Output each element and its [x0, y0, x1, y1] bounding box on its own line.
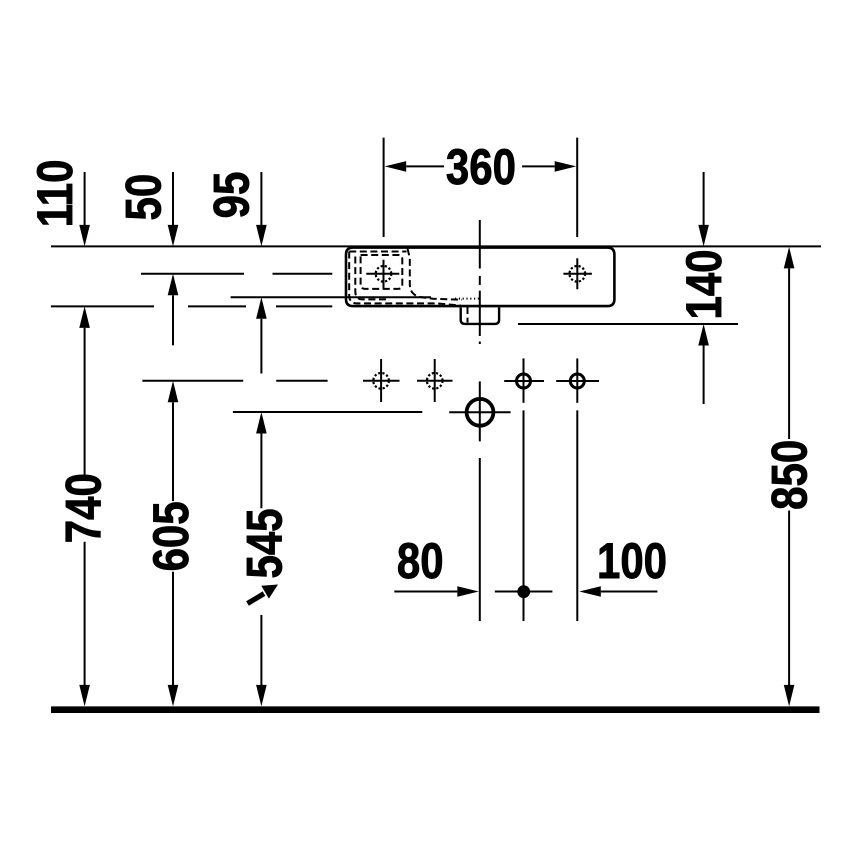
- drain circle cross horizontal: [449, 411, 510, 413]
- dim 95 shaft upper: [260, 172, 262, 226]
- extension line 545 level (drain center): [233, 411, 422, 413]
- hidden bowl left wall: [349, 252, 461, 306]
- dim 545 shaft lower: [260, 615, 262, 686]
- extension line 755 level (95 below top): [231, 296, 431, 298]
- dim 850 shaft upper: [788, 268, 790, 439]
- svg-text:100: 100: [597, 533, 667, 589]
- drain hole circle: [467, 399, 494, 426]
- dim 110 shaft upper: [84, 172, 86, 226]
- svg-text:740: 740: [55, 473, 111, 543]
- basin body outline: [346, 248, 614, 307]
- hidden bowl outline top: [349, 251, 406, 253]
- dim 605 shaft upper: [172, 402, 174, 501]
- arrow down 740 at floor: [79, 685, 90, 707]
- arrow right 360: [555, 161, 577, 172]
- dim 95 shaft lower: [260, 319, 262, 374]
- arrow up 740/110 at basin bottom: [79, 306, 90, 328]
- hidden bowl right wall: [408, 249, 463, 300]
- arrow left 100: [579, 586, 601, 597]
- svg-text:850: 850: [761, 440, 817, 510]
- svg-text:140: 140: [676, 249, 732, 319]
- dim 740 shaft lower: [84, 542, 86, 686]
- hole A cross lines: [363, 380, 400, 382]
- dimension point dot 80/100: [517, 585, 530, 598]
- hidden drain pipe line in siphon: [467, 307, 469, 323]
- arrow up 140 at siphon bottom: [698, 324, 709, 346]
- basin circle 2 cross lines: [563, 273, 592, 275]
- dim 140 shaft upper: [703, 172, 705, 226]
- arrow up 50 at 800 level: [168, 274, 179, 296]
- wall hole A (dashed): [373, 373, 389, 389]
- hole C vertical line: [523, 358, 525, 402]
- extension line 140 level (siphon bottom): [518, 323, 738, 325]
- hidden bowl inner left: [355, 257, 388, 300]
- dim 545 shaft upper: [260, 434, 262, 509]
- 360 dim extension line right: [576, 138, 578, 237]
- arrow up 545 at drain level: [256, 412, 267, 434]
- dim 50 shaft lower: [172, 295, 174, 345]
- svg-text:50: 50: [115, 174, 171, 221]
- extension line 605 level (hole row): [142, 380, 243, 382]
- svg-text:95: 95: [203, 172, 259, 219]
- wall hole C: [517, 374, 531, 388]
- floor line: [51, 706, 820, 713]
- 80/100 dimension line: [394, 591, 457, 593]
- dim 140 shaft lower: [703, 346, 705, 405]
- 360 dimension line: [406, 165, 444, 167]
- leader arrow of 545 (diagonal): [248, 585, 279, 604]
- hidden dotted line to center: [455, 298, 479, 300]
- hole D vertical line: [576, 358, 578, 402]
- arrow down 850 at floor: [784, 685, 795, 707]
- dim 740 shaft upper: [84, 328, 86, 475]
- drain siphon protrusion: [461, 308, 499, 324]
- arrow down 95 at top line: [256, 225, 267, 247]
- arrow left 360: [385, 161, 407, 172]
- basin faucet hole circle 1 (dashed): [376, 266, 392, 282]
- wall hole B (dashed): [427, 373, 443, 389]
- svg-text:605: 605: [143, 501, 199, 571]
- hole C cross line horizontal: [504, 380, 544, 382]
- arrow down 605 at floor: [168, 685, 179, 707]
- basin circle 1 cross lines: [366, 273, 399, 275]
- svg-text:545: 545: [236, 508, 292, 578]
- hole D cross line horizontal: [556, 380, 599, 382]
- svg-text:360: 360: [446, 139, 516, 195]
- svg-text:110: 110: [27, 160, 83, 228]
- dim 50 shaft upper: [172, 172, 174, 226]
- arrow right 80: [457, 586, 479, 597]
- arrow down 545 at floor: [256, 685, 267, 707]
- basin faucet hole circle 2 (dashed): [570, 266, 586, 282]
- arrow down 140 at top line: [698, 225, 709, 247]
- arrow up 850 at top line: [784, 247, 795, 269]
- dim 605 shaft lower: [172, 572, 174, 686]
- dim 850 shaft lower: [788, 511, 790, 686]
- arrow down 110 at top line: [79, 225, 90, 247]
- svg-text:80: 80: [397, 532, 444, 588]
- extension line 740 level (basin bottom): [51, 305, 154, 307]
- 360 dim extension line left: [383, 138, 385, 237]
- center axis line segments: [479, 220, 481, 269]
- wall hole D: [570, 374, 584, 388]
- arrow up 605 at hole row: [168, 381, 179, 403]
- hole B cross lines: [417, 380, 453, 382]
- hidden bowl inner rim rect: [361, 255, 403, 289]
- arrow up 95 at 755 level: [256, 297, 267, 319]
- extension line 800 level (50 below top): [141, 273, 244, 275]
- wall top reference line (850 level): [51, 245, 821, 247]
- arrow down 50 at top line: [168, 225, 179, 247]
